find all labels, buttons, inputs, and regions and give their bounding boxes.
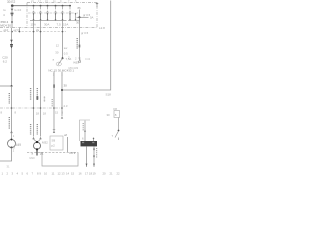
motor M2 pump <box>32 137 48 151</box>
wire F1 drop <box>33 21 35 137</box>
svg-text:22: 22 <box>117 172 121 176</box>
fuse F2 <box>39 5 42 21</box>
svg-text:C43: C43 <box>85 57 91 61</box>
motor M1 left <box>8 131 22 153</box>
switch S2 small <box>112 130 120 140</box>
divider line section 3 dash-dot <box>0 107 63 109</box>
connector arrows on wires <box>61 116 63 118</box>
ECU box right <box>80 120 95 141</box>
wire cluster out mid <box>61 72 63 117</box>
divider line section 2 dashed <box>0 31 66 33</box>
svg-text:18: 18 <box>43 111 47 115</box>
svg-text:2a: 2a <box>36 28 40 32</box>
pressure switch box <box>50 136 63 150</box>
wire color code vertical 1 <box>8 93 10 104</box>
node bus corner junction <box>11 4 14 7</box>
svg-text:86: 86 <box>78 6 82 10</box>
wire inner dash rail <box>28 12 78 14</box>
svg-text:15: 15 <box>55 111 59 115</box>
svg-text:30: 30 <box>107 113 111 117</box>
wire lower rail <box>30 20 67 22</box>
footer coordinate row <box>2 172 121 176</box>
svg-text:18: 18 <box>36 111 40 115</box>
hydraulic unit box <box>42 152 78 166</box>
wire pump ground through divider <box>36 149 38 155</box>
fuse rating labels <box>31 23 69 27</box>
fuse box border dash-dot <box>27 3 97 28</box>
node junction left <box>11 85 13 87</box>
connector K end <box>74 58 81 64</box>
svg-text:12 13: 12 13 <box>58 172 65 176</box>
wire motor to left edge <box>0 148 12 162</box>
svg-text:30 E2: 30 E2 <box>7 0 16 4</box>
wire K drop from relay <box>79 18 81 59</box>
wire down to motor <box>11 86 13 139</box>
wire bus 30 <box>12 5 71 7</box>
wire left drop from bus <box>11 6 13 28</box>
wire F4 drop to cluster <box>62 21 64 58</box>
connector X pins left <box>11 9 14 11</box>
wire bar out 1 <box>86 146 88 167</box>
svg-text:gr 0.5: gr 0.5 <box>81 31 89 35</box>
svg-text:MC433: MC433 <box>69 66 79 70</box>
wire left main drop <box>11 28 13 86</box>
svg-text:30A: 30A <box>44 23 49 27</box>
svg-text:M10: M10 <box>30 156 36 160</box>
svg-text:K63: K63 <box>74 60 80 64</box>
wire F2 drop <box>40 21 42 137</box>
svg-text:30: 30 <box>55 50 59 54</box>
fuse F5 <box>61 5 64 21</box>
fuse F7 <box>75 13 76 20</box>
fuse F6 <box>69 5 72 21</box>
svg-text:21: 21 <box>110 172 114 176</box>
svg-text:L2.8: L2.8 <box>99 26 105 30</box>
wire bar out 2 <box>93 146 95 167</box>
svg-text:M49: M49 <box>15 143 21 147</box>
svg-text:5A: 5A <box>90 15 94 19</box>
svg-text:MC4 30: MC4 30 <box>0 24 11 28</box>
wire switch out <box>67 137 69 152</box>
svg-text:HY3: HY3 <box>70 151 76 155</box>
svg-text:15A: 15A <box>63 23 68 27</box>
switch S1 <box>53 56 78 66</box>
wire color codes F1 F2 <box>30 88 32 100</box>
svg-text:W: W <box>13 146 16 150</box>
svg-text:12: 12 <box>56 44 60 48</box>
wire stub x19 <box>19 28 21 32</box>
svg-text:19: 19 <box>93 172 97 176</box>
svg-text:17 18: 17 18 <box>85 172 92 176</box>
fuse F4 <box>54 5 57 21</box>
svg-text:14: 14 <box>66 172 70 176</box>
svg-text:7,5: 7,5 <box>57 23 62 27</box>
fuse F1 <box>32 5 35 21</box>
connector pins inline <box>10 40 13 42</box>
svg-text:ro: ro <box>3 8 6 12</box>
svg-text:a8: a8 <box>64 133 68 137</box>
svg-text:16: 16 <box>79 172 83 176</box>
svg-text:20: 20 <box>103 172 107 176</box>
svg-text:ro 4.0: ro 4.0 <box>14 8 22 12</box>
wire sensor drop <box>118 118 120 132</box>
svg-text:30: 30 <box>76 21 80 25</box>
svg-text:10: 10 <box>44 172 48 176</box>
svg-text:S9: S9 <box>52 138 56 142</box>
wire cluster out left <box>53 72 55 134</box>
svg-text:S18: S18 <box>106 93 112 97</box>
fuse F3 <box>46 5 49 21</box>
wire long right riser <box>62 1 111 91</box>
pin labels above fuse box <box>31 0 77 3</box>
relay element in box right <box>76 6 94 25</box>
svg-text:15: 15 <box>71 172 75 176</box>
svg-text:8 9: 8 9 <box>37 172 41 176</box>
sensor box right small <box>107 107 120 118</box>
svg-text:6.2: 6.2 <box>3 59 8 63</box>
wire color code vertical 2 <box>8 117 10 129</box>
svg-text:11: 11 <box>52 172 55 176</box>
svg-text:p2: p2 <box>52 143 56 147</box>
svg-text:M32: M32 <box>42 140 48 144</box>
pin at box top right <box>96 3 99 7</box>
svg-text:30: 30 <box>64 83 68 87</box>
wire to left edge <box>0 85 12 87</box>
svg-text:q10: q10 <box>4 28 9 32</box>
divider line section 4 dashed <box>27 151 78 153</box>
connector bar K20 <box>81 141 98 146</box>
divider line section 1 dash-dot <box>0 27 97 29</box>
svg-text:2.3: 2.3 <box>64 104 68 108</box>
